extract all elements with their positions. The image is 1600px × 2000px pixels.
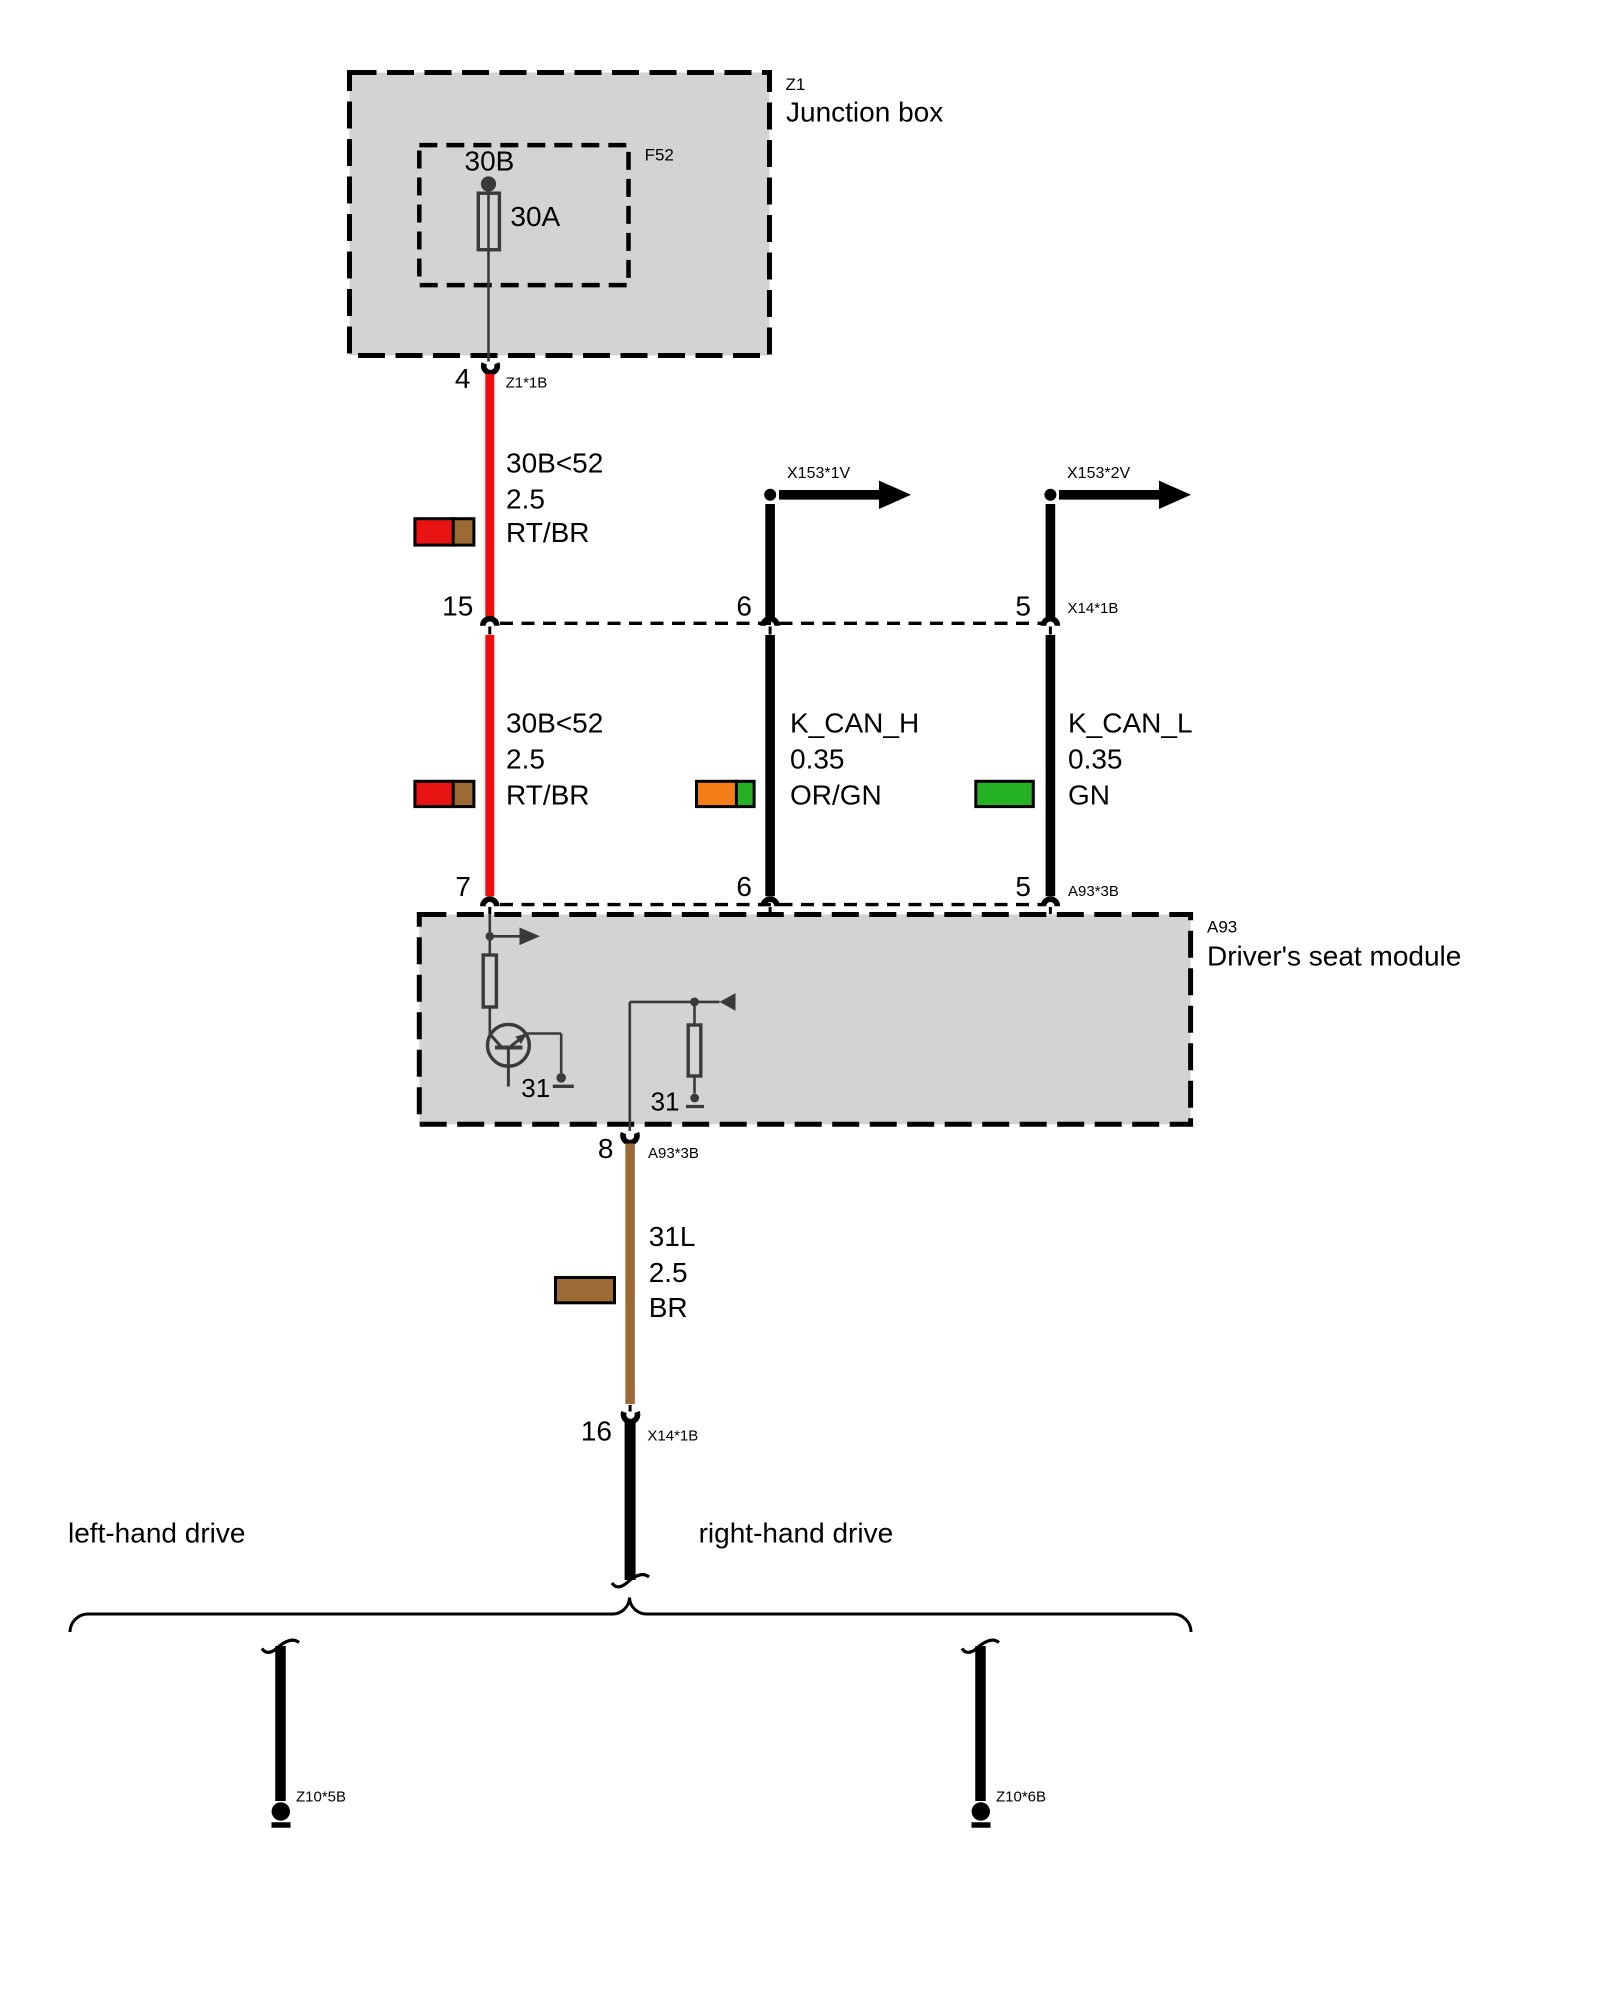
svg-text:GN: GN [1068,780,1110,811]
svg-text:X153*2V: X153*2V [1067,465,1130,482]
wire node to resistor R2 [693,1002,696,1025]
svg-text:left-hand drive: left-hand drive [68,1518,245,1549]
connector pin 5 socket (A93*3B) [1043,899,1057,906]
svg-text:5: 5 [1015,871,1031,902]
svg-text:F52: F52 [645,146,674,165]
colour chip BR [556,1278,615,1303]
wire resistor R2 to internal ground [693,1076,696,1094]
svg-text:8: 8 [598,1133,614,1164]
svg-text:A93*3B: A93*3B [648,1145,699,1162]
svg-text:2.5: 2.5 [649,1257,688,1288]
wire break symbol left branch [262,1640,299,1652]
connector pin 4 socket Z1*1B [484,363,498,372]
wire from node 30B through fuse to box edge [487,184,490,362]
svg-text:30B<52: 30B<52 [506,707,603,738]
colour chip GN [976,781,1034,806]
svg-text:right-hand drive: right-hand drive [699,1518,894,1549]
connector pin 15 socket [483,619,497,626]
internal junction dot at pull-up node [690,998,699,1007]
svg-text:K_CAN_L: K_CAN_L [1068,707,1193,738]
ground wire right branch [975,1646,986,1801]
connector pin 5 socket (X14*1B) [1043,619,1057,626]
svg-text:2.5: 2.5 [506,743,545,774]
junction box Z1 [350,73,770,356]
colour chip RT/BR (upper) [415,517,474,546]
fuse carrier F52 box [419,145,628,285]
arrow to X153*1V [779,481,911,509]
internal resistor R1 [483,955,496,1007]
colour chip RT/BR (lower) [415,780,474,808]
wire 30B&lt;52 red segment 1 [485,374,494,617]
ground Z10*5B dot [272,1802,290,1820]
node 30B dot [481,176,496,191]
svg-text:X14*1B: X14*1B [647,1428,698,1445]
wire 31L brown segment [625,1144,635,1405]
connector pin 6 socket (A93*3B) [763,899,777,906]
connector pin 6 socket (X14*1B) [763,619,777,626]
svg-text:RT/BR: RT/BR [506,517,590,548]
svg-text:31: 31 [651,1087,680,1117]
svg-text:Driver's seat module: Driver's seat module [1207,941,1461,972]
pin 7 stub [488,907,491,914]
svg-text:5: 5 [1015,591,1031,622]
connector pin 16 socket X14*1B [624,1412,638,1422]
internal wire from pin 8 up [628,1002,631,1131]
internal signal arrow left [695,993,736,1011]
svg-text:A93*3B: A93*3B [1068,883,1119,900]
ground Z10*6B dot [972,1802,990,1820]
svg-text:30A: 30A [510,201,560,232]
ground Z10*5B bar [272,1822,291,1828]
svg-text:BR: BR [649,1292,688,1323]
pin 5 stub [1049,627,1052,635]
ground distribution wire from pin 16 [625,1423,636,1581]
svg-text:6: 6 [736,871,752,902]
driver's seat module A93 [419,915,1190,1125]
svg-text:4: 4 [455,363,471,394]
transistor Q1 emitter lead with arrow [511,1033,528,1046]
pin 16 stub above [629,1405,632,1412]
svg-text:Z1*1B: Z1*1B [506,374,548,391]
internal ground 31 dot (left) [556,1073,566,1083]
svg-text:Z10*6B: Z10*6B [996,1789,1046,1806]
wire K_CAN_H lower segment [765,635,775,896]
svg-text:6: 6 [736,591,752,622]
internal wire from pin 7 [488,914,491,955]
internal ground 31 bar (left) [553,1085,574,1088]
internal junction dot at pin 7 branch [486,932,495,941]
transistor Q1 base bar [495,1046,523,1050]
inline connector A93*3B dashed separator line [500,903,1042,906]
internal ground 31 bar (right) [686,1105,704,1108]
svg-text:OR/GN: OR/GN [790,780,882,811]
svg-text:7: 7 [455,871,471,902]
arrow to X153*2V [1059,481,1191,509]
wire 30B&lt;52 red segment 2 [485,635,494,896]
branch node X153*1V dot [764,489,776,501]
ground wire left branch [275,1646,286,1801]
wire break symbol at trunk [612,1575,649,1587]
variant brace [70,1598,1191,1633]
wire K_CAN_L upper segment [1046,504,1056,617]
wire emitter to internal ground [527,1034,562,1074]
transistor Q1 stem lead down [507,1048,510,1087]
branch node X153*2V dot [1044,489,1056,501]
svg-text:X14*1B: X14*1B [1068,600,1119,617]
svg-text:X153*1V: X153*1V [787,465,850,482]
svg-text:31L: 31L [649,1221,696,1252]
ground Z10*6B bar [972,1822,991,1828]
colour chip OR/GN [697,780,755,808]
svg-text:30B: 30B [465,146,515,177]
pin 6 stub [769,907,772,914]
pin 5 stub [1049,907,1052,914]
svg-text:2.5: 2.5 [506,484,545,515]
wire resistor R1 to transistor [488,1007,491,1035]
inline connector X14*1B dashed separator line [500,622,1042,625]
internal ground 31 dot (right) [690,1094,699,1103]
internal horizontal wire to pull-up node [630,1001,695,1004]
internal resistor R2 [688,1025,701,1076]
pin 6 stub [769,627,772,635]
svg-text:Junction box: Junction box [786,97,943,128]
wire K_CAN_L lower segment [1046,635,1056,896]
fuse F52 30A [478,193,499,250]
pin 15 stub [488,627,491,635]
svg-text:RT/BR: RT/BR [506,780,590,811]
svg-text:30B<52: 30B<52 [506,448,603,479]
svg-text:0.35: 0.35 [1068,743,1123,774]
svg-text:16: 16 [581,1416,612,1447]
wire K_CAN_H upper segment [765,504,775,617]
svg-text:Z1: Z1 [786,75,806,94]
svg-text:A93: A93 [1207,918,1237,937]
transistor Q1 collector lead [490,1034,501,1047]
svg-text:Z10*5B: Z10*5B [296,1789,346,1806]
svg-text:15: 15 [442,591,473,622]
connector pin 8 socket A93*3B [623,1133,637,1143]
svg-text:31: 31 [521,1073,550,1103]
svg-text:0.35: 0.35 [790,743,845,774]
svg-text:K_CAN_H: K_CAN_H [790,707,919,738]
transistor Q1 circle [488,1024,530,1066]
connector pin 7 socket [483,899,497,906]
wire break symbol right branch [962,1640,999,1652]
internal signal arrow right [490,928,540,946]
